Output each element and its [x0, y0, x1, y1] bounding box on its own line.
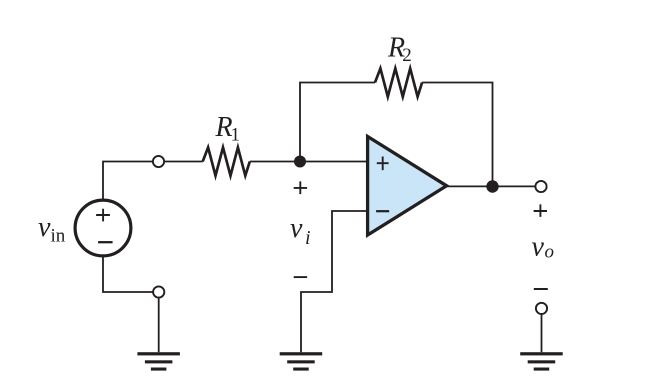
svg-text:v: v: [532, 232, 545, 263]
svg-text:i: i: [305, 227, 311, 249]
svg-text:v: v: [38, 212, 51, 243]
svg-text:in: in: [51, 226, 66, 247]
svg-text:1: 1: [231, 125, 241, 146]
svg-text:2: 2: [402, 45, 412, 66]
svg-text:o: o: [545, 242, 555, 263]
svg-text:v: v: [290, 213, 303, 244]
